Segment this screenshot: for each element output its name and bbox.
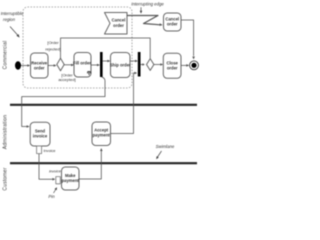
wire fork to Ship order: [102, 60, 109, 62]
svg-text:accepted]: accepted]: [58, 77, 75, 82]
wire Cancel order to final: [181, 20, 194, 56]
action Make payment: [62, 167, 80, 190]
svg-text:invoice: invoice: [49, 170, 61, 174]
svg-text:Swimlane: Swimlane: [156, 144, 175, 149]
wire Close order to final: [181, 64, 188, 66]
wire decision to Fill order: [64, 64, 72, 66]
svg-text:order: order: [167, 66, 178, 71]
svg-text:order: order: [34, 66, 45, 71]
svg-text:Cancel: Cancel: [112, 18, 126, 23]
initial node: [15, 61, 21, 69]
svg-text:payment: payment: [62, 178, 80, 183]
action Send invoice: [30, 122, 50, 146]
action Cancel order: [164, 13, 182, 31]
svg-text:Pin: Pin: [48, 194, 55, 199]
action Fill order (with rake): [74, 53, 91, 78]
wire merge to Close order: [154, 64, 162, 66]
join bar: [138, 52, 141, 77]
wire Receive order to decision: [48, 65, 55, 67]
activity final node: [190, 61, 199, 70]
swimlane border 2 (Administration/Customer): [10, 162, 197, 164]
merge diamond: [147, 59, 154, 71]
svg-text:region: region: [3, 17, 16, 22]
svg-text:Customer: Customer: [3, 167, 9, 190]
rake icon: [88, 72, 91, 76]
wire Ship order to join: [130, 60, 136, 62]
output pin of Send invoice: [37, 146, 42, 154]
wire join to merge: [140, 64, 143, 66]
svg-text:invoice: invoice: [33, 134, 48, 139]
svg-text:Interrupting edge: Interrupting edge: [131, 2, 164, 7]
accept event Cancel order (pentagon): [105, 13, 128, 35]
swimlane border 1 (top/Administration): [10, 104, 197, 106]
wire rejected path: diamond top up, right, down into merge: [61, 38, 151, 58]
svg-text:payment: payment: [93, 133, 111, 138]
svg-text:Invoice: Invoice: [44, 149, 56, 153]
svg-text:Fill order: Fill order: [73, 61, 91, 66]
wire invoice object flow to Make payment pin: [39, 154, 53, 180]
svg-text:rejected]: rejected]: [45, 47, 60, 52]
action Accept payment: [92, 122, 111, 146]
interrupting edge (lightning bolt): [127, 16, 160, 25]
fork bar: [100, 52, 103, 77]
input pin of Make payment: [56, 177, 61, 184]
svg-text:Ship order: Ship order: [110, 63, 131, 68]
svg-text:Administration: Administration: [3, 115, 9, 149]
svg-text:Interruptible: Interruptible: [1, 11, 24, 16]
wire Fill order to fork: [91, 64, 98, 66]
annotation arrow to region corner: [10, 27, 18, 36]
wire Make payment to Accept payment: [79, 150, 101, 179]
action Receive order: [31, 53, 49, 78]
wire Accept payment to join bar: [111, 73, 136, 134]
svg-text:Commercial: Commercial: [3, 41, 9, 70]
wire initial to Receive order: [21, 65, 29, 67]
wire fork down to Send invoice: [22, 77, 105, 127]
action Close order: [163, 53, 181, 78]
action Ship order: [111, 53, 131, 78]
svg-text:[Order: [Order: [47, 40, 59, 45]
svg-text:order: order: [167, 22, 178, 27]
interruptible activity region (dashed): [23, 7, 132, 88]
decision diamond: [57, 58, 64, 71]
svg-text:order: order: [113, 23, 124, 28]
